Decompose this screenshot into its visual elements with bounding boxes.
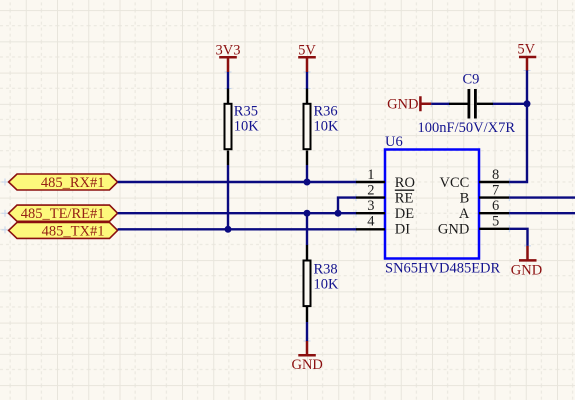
wire 5V to R36 [306, 72, 308, 89]
svg-text:A: A [459, 206, 470, 222]
svg-text:100nF/50V/X7R: 100nF/50V/X7R [418, 120, 516, 136]
junction TE/RE branch [335, 210, 342, 217]
svg-text:10K: 10K [314, 119, 340, 135]
svg-text:DE: DE [395, 206, 414, 222]
svg-text:485_TX#1: 485_TX#1 [42, 223, 105, 239]
svg-text:5: 5 [492, 214, 499, 230]
port 485_RX#1 [9, 174, 118, 191]
wire RX net [118, 181, 356, 183]
junction R35/TX [225, 226, 232, 233]
wire TX net [118, 228, 356, 230]
resistor R38 [304, 245, 340, 322]
power port GND (bottom) [291, 341, 322, 373]
svg-text:RE: RE [395, 191, 414, 207]
svg-text:7: 7 [492, 182, 499, 198]
svg-text:8: 8 [492, 167, 499, 183]
U6 pin 5 GND [438, 214, 509, 238]
wire endpoint markers [2, 67, 532, 345]
junction R38/TE-RE [304, 210, 311, 217]
svg-text:RO: RO [395, 175, 415, 191]
power port GND (right) [511, 246, 542, 278]
wire GND pin to GND symbol [509, 229, 527, 246]
svg-text:6: 6 [492, 198, 499, 214]
wire 3V3 to R35 [227, 72, 229, 89]
wire A net [509, 212, 575, 214]
svg-text:B: B [460, 191, 470, 207]
svg-text:GND: GND [291, 357, 322, 373]
svg-text:VCC: VCC [439, 175, 469, 191]
junction C9/5V [524, 100, 531, 107]
power port GND (left of C9) [387, 96, 431, 112]
svg-text:R35: R35 [234, 104, 258, 120]
power port 3V3 [216, 43, 241, 73]
svg-text:GND: GND [511, 262, 542, 278]
svg-text:R36: R36 [314, 104, 338, 120]
svg-text:C9: C9 [463, 72, 480, 88]
U6 pin 4 DI [356, 214, 410, 238]
U6 pin 7 B [460, 182, 510, 206]
svg-text:4: 4 [367, 214, 375, 230]
U6 pin 2 RE (active low) [356, 182, 414, 206]
wire R35 to TX net [227, 165, 229, 229]
U6 pin 8 VCC [439, 167, 509, 191]
svg-text:GND: GND [438, 222, 469, 238]
svg-text:2: 2 [367, 182, 374, 198]
svg-text:SN65HVD485EDR: SN65HVD485EDR [385, 260, 501, 276]
wire TE/RE branch to pin 2 [338, 198, 356, 214]
svg-text:10K: 10K [314, 277, 340, 293]
junction R36/RX [304, 179, 311, 186]
capacitor C9 [418, 72, 516, 136]
svg-text:DI: DI [395, 222, 410, 238]
svg-text:485_TE/RE#1: 485_TE/RE#1 [21, 206, 105, 222]
wire TE/RE net [118, 212, 356, 214]
IC U6 (SN65HVD485EDR) body [385, 134, 501, 276]
wire C9 to 5V rail [493, 103, 527, 105]
svg-text:3: 3 [367, 198, 374, 214]
wire 5V rail to VCC pin [509, 71, 527, 183]
wire GND to C9 [431, 103, 449, 105]
U6 pin 3 DE [356, 198, 414, 222]
power port 5V (right) [517, 42, 536, 71]
svg-text:5V: 5V [517, 42, 535, 58]
wire B net [509, 196, 575, 198]
power port 5V (middle) [298, 43, 316, 73]
wire R38 leg [306, 213, 308, 245]
wire R36 to RX net [306, 165, 308, 182]
U6 pin 1 RO [356, 167, 415, 191]
svg-text:GND: GND [387, 97, 418, 113]
wire R38 to GND [306, 322, 308, 341]
resistor R35 [225, 89, 260, 166]
resistor R36 [304, 89, 340, 166]
port 485_TX#1 [9, 222, 118, 239]
U6 pin 6 A [459, 198, 509, 222]
svg-text:R38: R38 [314, 262, 338, 278]
svg-text:10K: 10K [234, 119, 259, 135]
port 485_TE/RE#1 [9, 205, 118, 222]
svg-text:485_RX#1: 485_RX#1 [41, 175, 105, 191]
svg-text:U6: U6 [385, 134, 403, 150]
svg-text:1: 1 [367, 167, 374, 183]
